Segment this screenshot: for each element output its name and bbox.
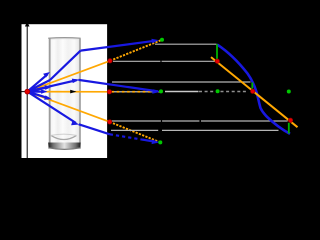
blue ray B1 exit segment (81, 41, 156, 51)
gray axis dashes beyond green2b (221, 91, 248, 93)
gray line under axis extension (112, 91, 162, 93)
red dot D1 (108, 59, 112, 63)
blue stub down arrowhead (44, 95, 52, 99)
blue ray B4 end arrowhead (152, 140, 160, 145)
green vertical V1 (216, 44, 218, 60)
red dot D4 (caustic top) (215, 59, 219, 63)
green dot P2 (159, 89, 163, 93)
blue caustic curve (217, 44, 290, 133)
blue stub vector up (27, 87, 48, 91)
gray line G5 (112, 120, 161, 122)
black arrowhead on axis ray (70, 90, 76, 94)
red dot D6 (bottom right) (288, 118, 292, 122)
blue ray B4 arrowhead at bend (71, 121, 79, 125)
gray line G2 (113, 60, 160, 62)
red dot D3 (108, 120, 112, 124)
glass rim (48, 37, 80, 40)
x-axis line (22, 91, 108, 93)
orange ray O2 (axis ray) (27, 91, 109, 93)
blue stub up arrowhead (45, 85, 53, 90)
red dot D5 (axis focus) (251, 89, 255, 93)
red source dot S (25, 89, 30, 94)
gray line G3 (112, 81, 251, 83)
glass base (48, 143, 80, 150)
blue ray B2 incident (27, 80, 76, 91)
blue ray B2 arrowhead at bend (72, 79, 80, 84)
orange ray O1 dashed extension (110, 40, 162, 61)
blue ray B4 exit solid (79, 124, 110, 134)
blue stub horizontal arrowhead (41, 89, 47, 93)
glass photo body (48, 38, 80, 149)
glass inner bottom ellipse (51, 135, 77, 139)
green dot P2b (216, 89, 220, 93)
gray line G1 (top horizontal) (155, 43, 217, 45)
blue ray B2 exit segment (79, 80, 159, 92)
green vertical V3 (small, at axis crossing) (251, 83, 253, 89)
blue stub horizontal vector (27, 90, 43, 92)
green dot P1 (160, 38, 164, 42)
red dot D2 (107, 90, 111, 94)
green vertical V2 (bottom right) (288, 123, 290, 134)
gray line G6 (111, 129, 158, 131)
orange ray O3 dashed extension (110, 122, 161, 142)
green dot P3 (158, 140, 162, 144)
blue stub steep up arrowhead (43, 72, 50, 78)
orange ray O3 (undeviated, to lower red dot) (27, 92, 109, 122)
blue ray B1 end arrowhead (151, 39, 158, 44)
blue ray B1 inside glass (50, 51, 81, 80)
orange tangent ray on right (211, 57, 298, 127)
blue ray B4 dashed extension (110, 134, 146, 140)
gray axis dashes to green2b (199, 91, 215, 93)
blue ray B4 incident (27, 92, 76, 123)
blue ray B4 final arrow segment (143, 140, 157, 142)
blue ray B1 incident (27, 80, 50, 92)
blue stub vector steep up (27, 74, 47, 91)
blue stub vector down (27, 92, 48, 99)
green dot P4 (far right) (287, 90, 291, 94)
y-axis arrowhead (25, 22, 30, 27)
gray axis segment green2 to green2b (165, 91, 199, 93)
blue ray B2 end arrowhead (152, 89, 160, 94)
white photo panel (22, 24, 108, 158)
glass side shading (49, 39, 51, 149)
orange ray O2 dashed extension (112, 91, 162, 93)
y-axis line (26, 26, 28, 159)
orange ray O1 (undeviated, to upper red dot) (27, 61, 110, 92)
